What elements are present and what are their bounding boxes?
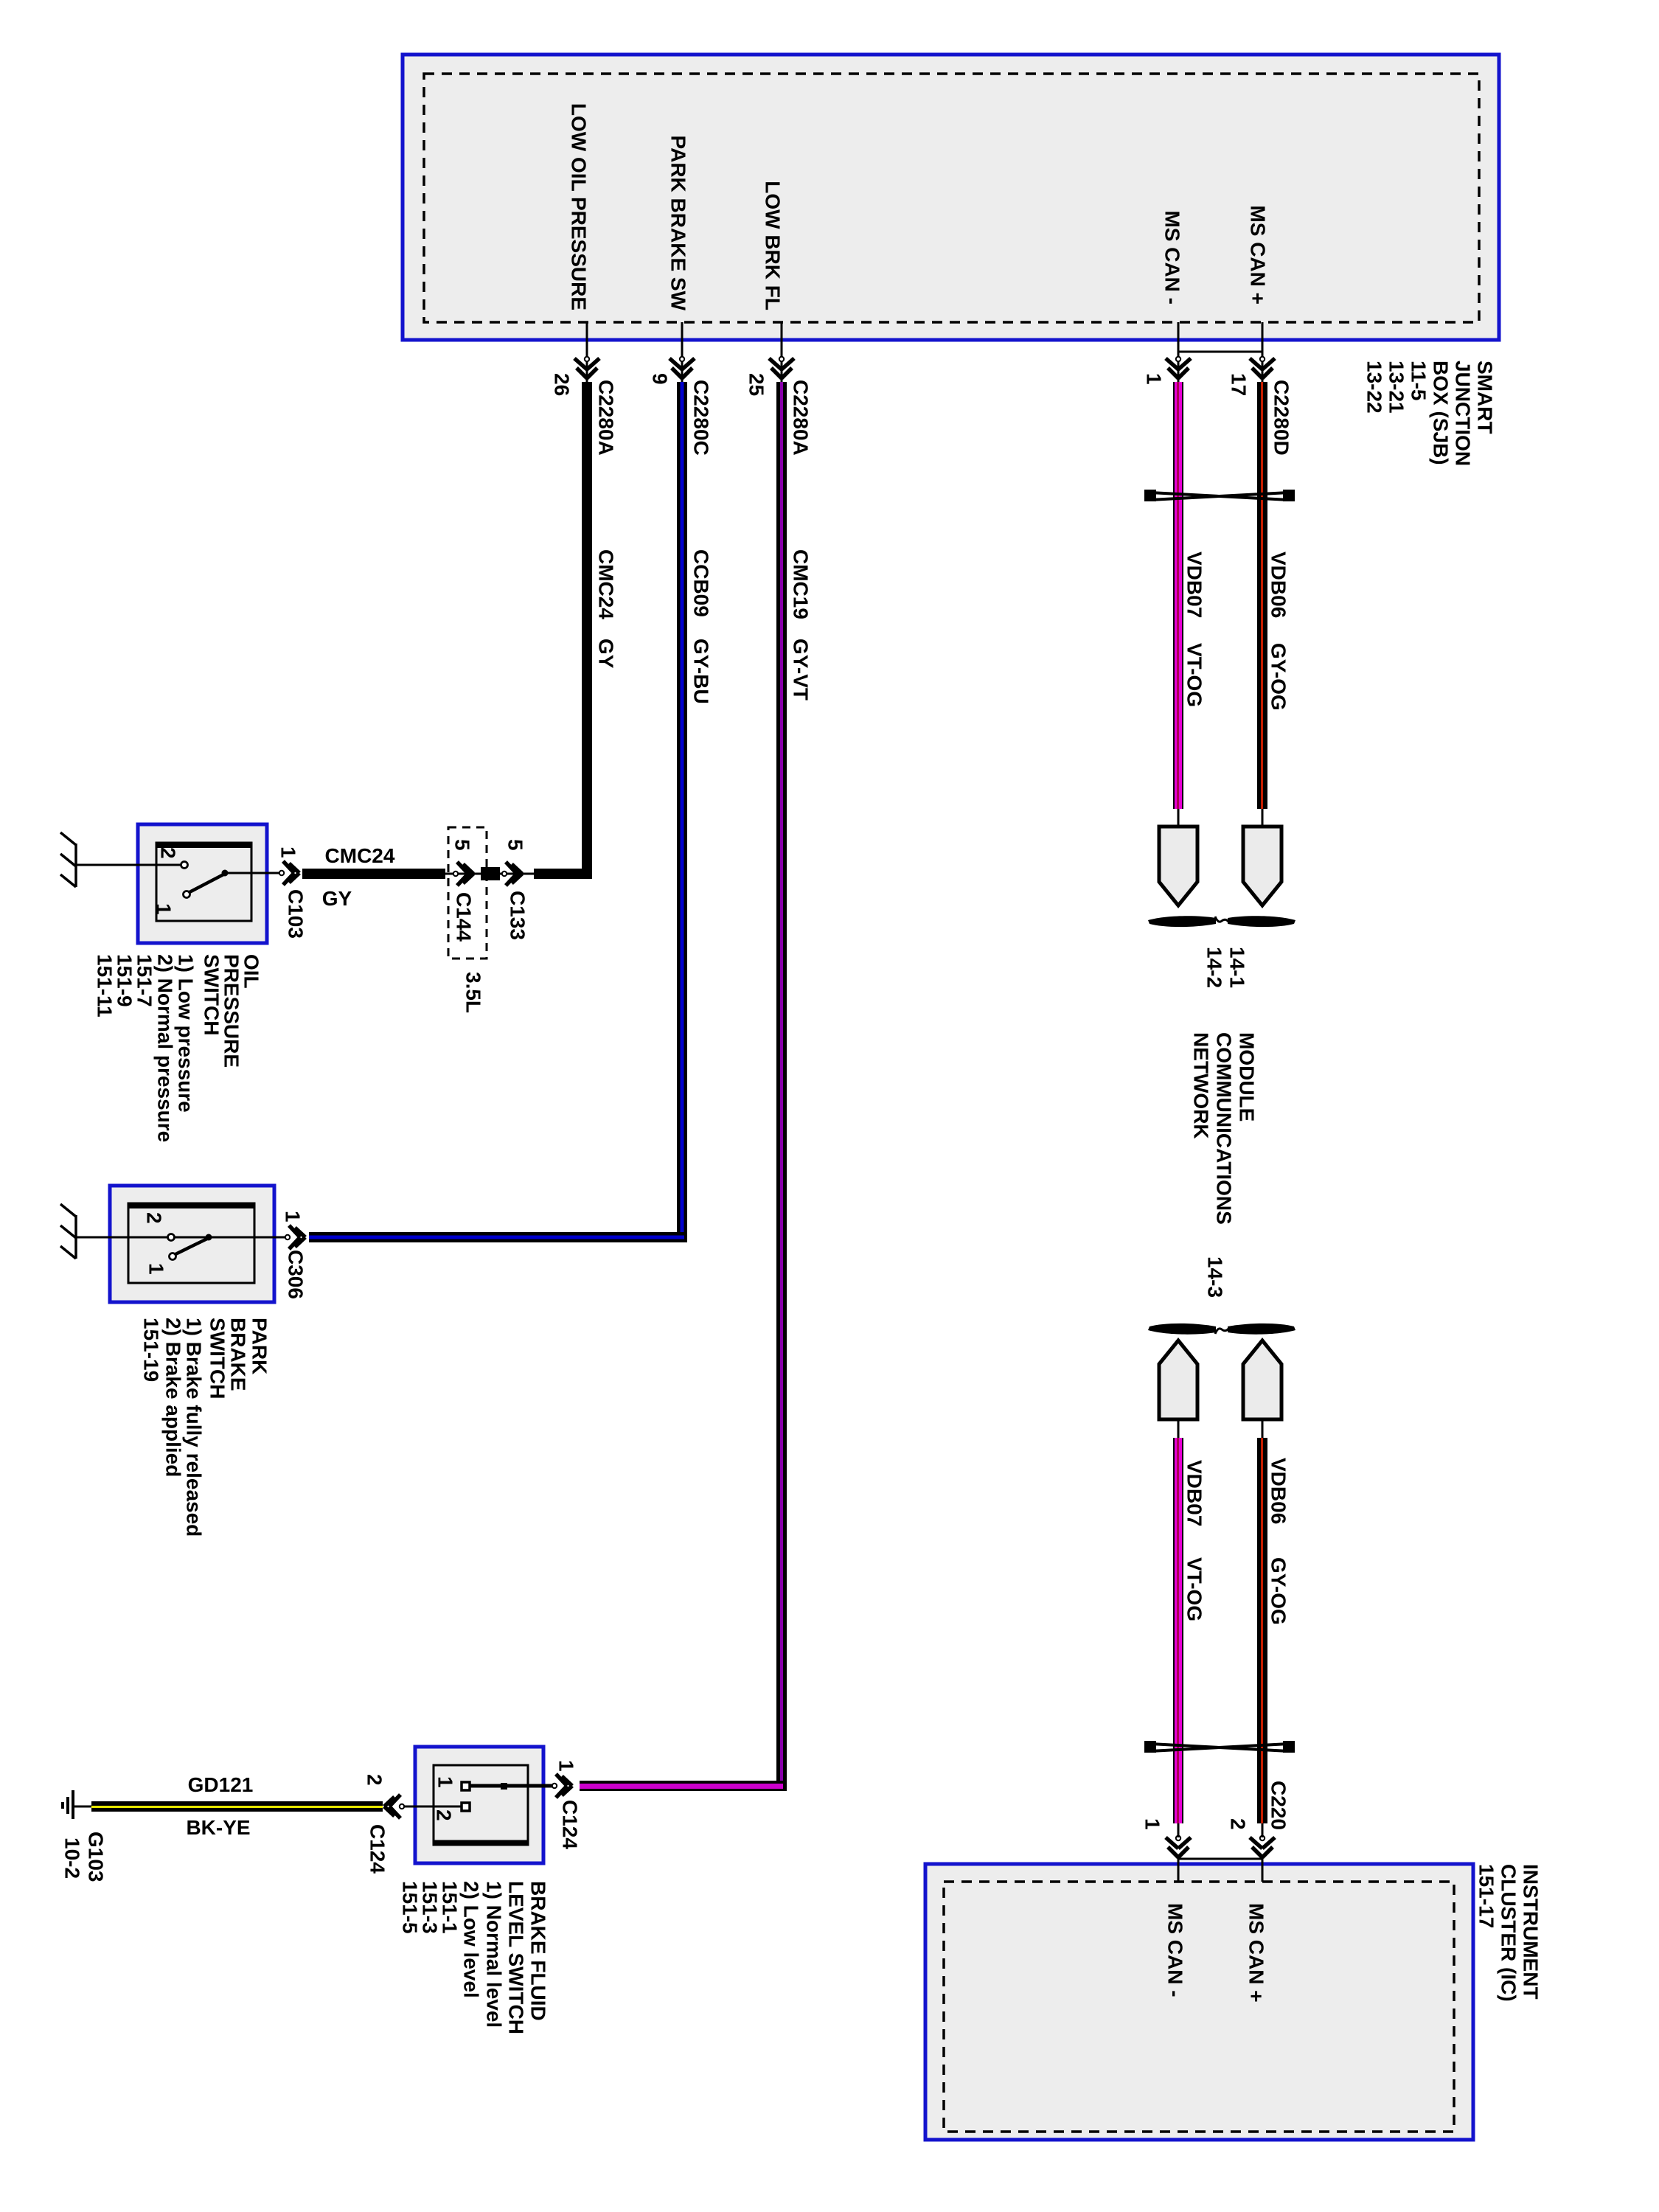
inline splice block bbox=[481, 867, 500, 880]
smart junction box SJB bbox=[403, 55, 1499, 340]
off-page connector lower left (MS CAN -) bbox=[1159, 1340, 1197, 1419]
svg-text:14-1: 14-1 bbox=[1226, 947, 1249, 988]
svg-text:1: 1 bbox=[145, 1263, 168, 1275]
off-page connector upper left (MS CAN -) lead bbox=[1178, 809, 1180, 827]
svg-text:VDB07: VDB07 bbox=[1183, 1460, 1206, 1526]
SJB name label SMART JUNCTION BOX (SJB) 11-5 13-21 13-22 bbox=[1363, 361, 1497, 466]
svg-text:GY-BU: GY-BU bbox=[690, 639, 713, 704]
svg-text:GY: GY bbox=[322, 887, 352, 910]
brake fluid level switch U3 box bbox=[415, 1747, 543, 1863]
wire VDB07 VT-OG lower (MS CAN -) bbox=[1173, 1438, 1183, 1823]
svg-text:151-11: 151-11 bbox=[94, 954, 116, 1018]
SJB pin 1 connector arrow bbox=[1166, 358, 1191, 378]
svg-text:13-22: 13-22 bbox=[1363, 361, 1386, 414]
svg-text:C220: C220 bbox=[1267, 1781, 1290, 1830]
park brake switch description bbox=[140, 1318, 271, 1537]
svg-text:2: 2 bbox=[1227, 1818, 1250, 1830]
oil pressure switch description bbox=[94, 954, 263, 1142]
svg-text:CCB09: CCB09 bbox=[690, 549, 713, 617]
svg-text:5: 5 bbox=[504, 839, 527, 851]
svg-text:GY-VT: GY-VT bbox=[790, 639, 813, 700]
svg-text:C2280C: C2280C bbox=[690, 380, 713, 456]
wire CMC24 GY horizontal to C133 bbox=[534, 869, 592, 879]
svg-text:151-5: 151-5 bbox=[399, 1881, 422, 1934]
svg-text:1) Brake fully released: 1) Brake fully released bbox=[183, 1318, 206, 1537]
wire oil pressure switch output bbox=[225, 872, 285, 874]
svg-text:MS CAN -: MS CAN - bbox=[1161, 210, 1184, 305]
off-page connector upper right (MS CAN +) bbox=[1243, 827, 1281, 905]
svg-text:MODULE: MODULE bbox=[1236, 1032, 1259, 1121]
svg-text:C2280A: C2280A bbox=[790, 380, 813, 456]
break wing upper left bbox=[1148, 916, 1216, 927]
off-page connector lower right lead bbox=[1262, 1419, 1264, 1438]
svg-text:C124: C124 bbox=[366, 1824, 389, 1874]
svg-text:BOX (SJB): BOX (SJB) bbox=[1430, 361, 1453, 465]
svg-text:BK-YE: BK-YE bbox=[186, 1816, 250, 1839]
svg-text:1: 1 bbox=[434, 1776, 457, 1788]
svg-text:1) Normal level: 1) Normal level bbox=[483, 1881, 506, 2028]
wire ground to oil pressure switch pin 2 bbox=[76, 864, 181, 866]
svg-text:COMMUNICATIONS: COMMUNICATIONS bbox=[1213, 1032, 1236, 1225]
wire C124 to brake fluid switch pin 2 bbox=[404, 1806, 462, 1808]
twisted pair bracket at SJB pins 1 and 17 bbox=[1178, 351, 1262, 353]
svg-text:10-2: 10-2 bbox=[61, 1837, 84, 1879]
svg-text:26: 26 bbox=[551, 373, 574, 396]
instrument cluster IC box bbox=[925, 1864, 1473, 2140]
IC name label INSTRUMENT CLUSTER (IC) 151-17 bbox=[1475, 1864, 1543, 2002]
svg-text:C144: C144 bbox=[453, 892, 476, 942]
svg-text:CMC19: CMC19 bbox=[790, 549, 813, 619]
ground chassis at oil pressure switch bbox=[60, 832, 76, 887]
wire ground through park brake switch bbox=[76, 1237, 288, 1239]
svg-text:C103: C103 bbox=[285, 889, 307, 939]
park brake switch lever pivot dot bbox=[206, 1234, 212, 1241]
ground label G103 10-2 bbox=[61, 1832, 108, 1882]
svg-text:GY-OG: GY-OG bbox=[1267, 1557, 1290, 1625]
connector arrow C133 bbox=[506, 862, 522, 886]
break wing upper right bbox=[1228, 916, 1295, 927]
SJB pin 25 stub wire bbox=[781, 322, 783, 383]
park brake switch U2 box bbox=[110, 1186, 274, 1302]
off-page connector upper left (MS CAN -) bbox=[1159, 827, 1197, 905]
svg-text:17: 17 bbox=[1228, 373, 1251, 396]
svg-text:GY: GY bbox=[595, 639, 618, 669]
park brake switch pin 2 terminal bbox=[168, 1234, 175, 1241]
svg-text:1: 1 bbox=[282, 1211, 305, 1222]
svg-text:BRAKE: BRAKE bbox=[227, 1318, 250, 1391]
connector arrow C124 left bbox=[384, 1795, 400, 1818]
wire CCB09 GY-BU horizontal to park brake switch bbox=[309, 1232, 687, 1242]
wire C144 to C133 bbox=[500, 873, 534, 875]
svg-text:CMC24: CMC24 bbox=[325, 844, 395, 867]
svg-text:C2280D: C2280D bbox=[1270, 380, 1293, 456]
svg-text:C2280A: C2280A bbox=[595, 380, 618, 456]
ground G103 bbox=[63, 1790, 91, 1819]
wire VDB06 GY-OG upper (MS CAN +) bbox=[1257, 382, 1267, 809]
break squiggle upper bbox=[1215, 917, 1228, 922]
ground chassis at park brake switch bbox=[60, 1204, 76, 1259]
svg-text:VT-OG: VT-OG bbox=[1183, 643, 1206, 707]
svg-text:151-19: 151-19 bbox=[140, 1318, 163, 1382]
connector arrow C306 bbox=[289, 1225, 305, 1249]
svg-text:BRAKE FLUID: BRAKE FLUID bbox=[527, 1881, 550, 2021]
svg-text:CMC24: CMC24 bbox=[595, 549, 618, 619]
brake fluid level switch description bbox=[399, 1881, 550, 2034]
svg-text:SWITCH: SWITCH bbox=[201, 954, 223, 1035]
connector arrow C144 bbox=[457, 862, 473, 886]
SJB pin 9 stub wire bbox=[681, 322, 684, 383]
svg-text:VDB06: VDB06 bbox=[1267, 1458, 1290, 1524]
SJB pin 17 stub wire bbox=[1262, 322, 1264, 383]
node MODULE COMMUNICATIONS NETWORK bbox=[1190, 1032, 1259, 1225]
svg-text:11-5: 11-5 bbox=[1408, 361, 1430, 401]
off-page connector lower left lead bbox=[1178, 1419, 1180, 1438]
svg-text:25: 25 bbox=[745, 373, 768, 396]
svg-text:13-21: 13-21 bbox=[1385, 361, 1408, 414]
svg-text:9: 9 bbox=[649, 373, 672, 385]
svg-text:2: 2 bbox=[143, 1212, 166, 1224]
wire CMC24 GY from C103 to C144 bbox=[302, 869, 445, 879]
wire CMC19 GY-VT horizontal to brake fluid level switch bbox=[580, 1781, 787, 1791]
svg-text:5: 5 bbox=[451, 839, 474, 851]
park brake switch pin 1 terminal bbox=[170, 1253, 176, 1260]
svg-text:PARK BRAKE SW: PARK BRAKE SW bbox=[667, 136, 690, 311]
connector arrow C103 bbox=[283, 861, 299, 885]
svg-text:2) Brake applied: 2) Brake applied bbox=[162, 1318, 185, 1477]
svg-text:GD121: GD121 bbox=[188, 1773, 254, 1796]
brake fluid switch pin 1 terminal bbox=[462, 1782, 470, 1790]
inline connector C144 dashed box bbox=[448, 827, 487, 959]
wire brake fluid switch pin 1 to C124 bbox=[470, 1784, 554, 1788]
SJB pin 9 connector arrow bbox=[669, 358, 695, 378]
svg-text:1: 1 bbox=[555, 1760, 578, 1772]
svg-text:2) Normal pressure: 2) Normal pressure bbox=[154, 954, 177, 1142]
break wing lower left bbox=[1148, 1324, 1216, 1335]
svg-text:PARK: PARK bbox=[248, 1318, 271, 1374]
wire GD121 BK-YE bbox=[91, 1801, 383, 1812]
svg-text:JUNCTION: JUNCTION bbox=[1452, 361, 1475, 466]
svg-text:1: 1 bbox=[1143, 373, 1166, 385]
svg-text:LOW BRK FL: LOW BRK FL bbox=[762, 181, 785, 310]
oil pressure switch U1 box bbox=[138, 824, 267, 943]
IC wire stubs from wires to arrows bbox=[1178, 1823, 1180, 1837]
svg-text:G103: G103 bbox=[85, 1832, 108, 1882]
SJB pin 26 stub wire bbox=[586, 322, 588, 383]
svg-text:MS CAN +: MS CAN + bbox=[1245, 1903, 1268, 2003]
svg-text:VDB07: VDB07 bbox=[1183, 552, 1206, 618]
wire VDB07 VT-OG upper (MS CAN -) bbox=[1173, 382, 1183, 809]
svg-text:SWITCH: SWITCH bbox=[206, 1318, 229, 1399]
svg-text:INSTRUMENT: INSTRUMENT bbox=[1520, 1864, 1543, 2000]
SJB pin 1 stub wire bbox=[1178, 322, 1180, 383]
wire VDB06 GY-OG lower (MS CAN +) bbox=[1257, 1438, 1267, 1823]
oil pressure switch lever bbox=[189, 874, 225, 892]
svg-text:MS CAN +: MS CAN + bbox=[1247, 205, 1270, 305]
svg-text:14-3: 14-3 bbox=[1204, 1256, 1227, 1298]
IC pin stub wires into box bbox=[1178, 1857, 1180, 1882]
off-page connector lower right (MS CAN +) bbox=[1243, 1340, 1281, 1419]
twisted pair symbol lower bbox=[1144, 1741, 1295, 1753]
svg-text:3.5L: 3.5L bbox=[462, 972, 485, 1013]
twisted pair bracket at IC pins bbox=[1178, 1858, 1262, 1860]
off-page connector upper right (MS CAN +) lead bbox=[1262, 809, 1264, 827]
svg-text:14-2: 14-2 bbox=[1203, 947, 1226, 988]
oil pressure switch pin 1 terminal bbox=[184, 891, 190, 898]
svg-text:NETWORK: NETWORK bbox=[1190, 1032, 1213, 1139]
svg-text:VDB06: VDB06 bbox=[1267, 552, 1290, 618]
svg-text:2: 2 bbox=[364, 1774, 386, 1786]
wire CMC24 GY vertical from SJB pin 26 bbox=[582, 382, 592, 879]
svg-text:1: 1 bbox=[153, 903, 175, 915]
IC pin 2 connector arrow bbox=[1250, 1837, 1275, 1857]
oil pressure switch pin 2 terminal bbox=[181, 862, 188, 869]
brake fluid switch pin 2 terminal bbox=[462, 1803, 470, 1811]
svg-text:1: 1 bbox=[1141, 1818, 1164, 1830]
svg-text:VT-OG: VT-OG bbox=[1183, 1557, 1206, 1621]
wire CCB09 GY-BU vertical from SJB pin 9 bbox=[677, 382, 687, 1242]
wire through C144 bbox=[445, 873, 481, 875]
svg-text:2: 2 bbox=[157, 847, 180, 859]
svg-text:1: 1 bbox=[277, 846, 300, 858]
break wing lower right bbox=[1228, 1324, 1295, 1335]
SJB pin 26 connector arrow bbox=[574, 358, 599, 378]
IC pin 1 connector arrow bbox=[1166, 1837, 1191, 1857]
wire CMC19 GY-VT vertical from SJB pin 25 bbox=[776, 382, 787, 1791]
svg-text:LEVEL SWITCH: LEVEL SWITCH bbox=[505, 1881, 528, 2034]
oil pressure switch lever pivot dot bbox=[222, 870, 229, 877]
park brake switch lever bbox=[175, 1238, 209, 1254]
svg-text:MS CAN -: MS CAN - bbox=[1164, 1903, 1187, 1997]
svg-text:SMART: SMART bbox=[1474, 361, 1497, 434]
svg-text:LOW OIL PRESSURE: LOW OIL PRESSURE bbox=[568, 103, 591, 310]
svg-text:C124: C124 bbox=[559, 1800, 582, 1849]
svg-text:C133: C133 bbox=[507, 891, 529, 940]
break squiggle lower bbox=[1215, 1329, 1228, 1334]
SJB pin 17 connector arrow bbox=[1250, 358, 1275, 378]
connector arrow C124 right bbox=[556, 1774, 572, 1798]
svg-text:CLUSTER (IC): CLUSTER (IC) bbox=[1498, 1864, 1520, 2002]
svg-text:GY-OG: GY-OG bbox=[1267, 643, 1290, 711]
svg-text:C306: C306 bbox=[285, 1250, 307, 1299]
svg-text:2) Low level: 2) Low level bbox=[460, 1881, 483, 1998]
junction dot on pin 1 wire bbox=[501, 1783, 507, 1790]
twisted pair symbol upper bbox=[1144, 490, 1295, 501]
svg-text:1) Low pressure: 1) Low pressure bbox=[175, 954, 198, 1113]
svg-text:151-17: 151-17 bbox=[1475, 1864, 1498, 1928]
SJB pin 25 connector arrow bbox=[769, 358, 794, 378]
svg-text:2: 2 bbox=[433, 1809, 456, 1821]
